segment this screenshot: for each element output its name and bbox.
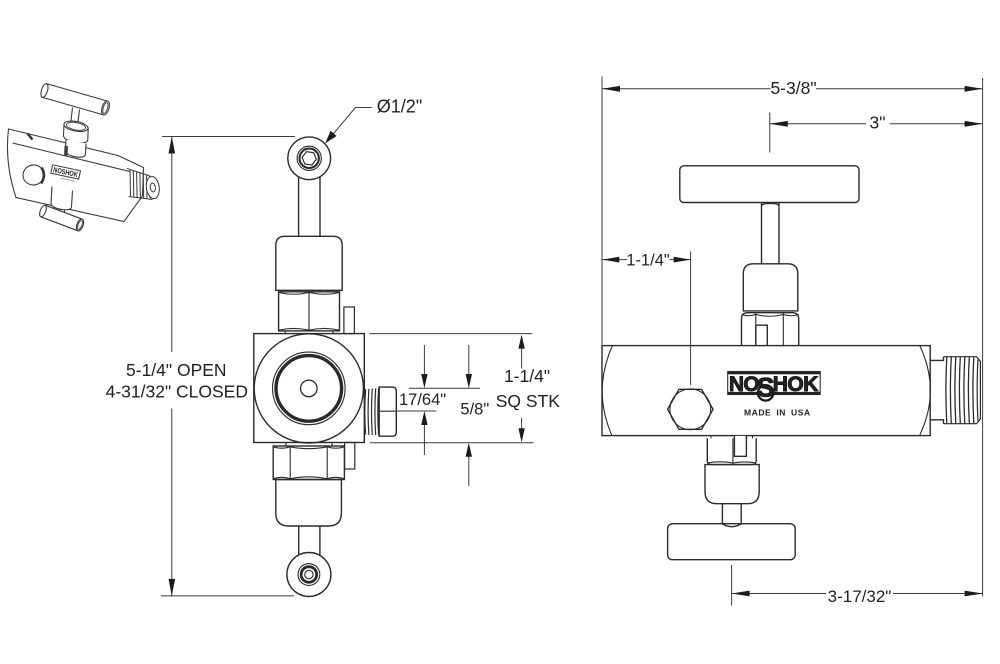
svg-text:1-1/4": 1-1/4" — [504, 366, 550, 386]
dim line 3-17/32 left part — [732, 593, 826, 595]
arrowhead up 5/8 — [466, 443, 472, 457]
lower stem side — [722, 504, 741, 527]
arrowhead down 5/8 — [466, 374, 472, 388]
lower T handle — [668, 524, 796, 560]
body left end chamfer arc — [602, 346, 612, 435]
iso body front ridge — [13, 143, 131, 172]
dim line 3-17/32 right part — [893, 593, 983, 595]
iso top face mark — [28, 134, 33, 140]
body front thin ring — [273, 352, 346, 425]
dim line 3 right part — [890, 123, 983, 125]
iso packing nut — [63, 119, 89, 143]
bottom eye thick ring — [301, 567, 317, 583]
dim line 5-3/8 left part — [602, 88, 771, 90]
svg-text:17/64": 17/64" — [399, 391, 446, 409]
svg-text:5-1/4" OPEN: 5-1/4" OPEN — [126, 360, 227, 380]
lower nut neck tick right — [752, 436, 754, 439]
lower nut neck tick left — [710, 436, 712, 439]
male NPT thread block — [944, 357, 981, 424]
upper neck tick left — [284, 331, 286, 334]
vertical dimension line lower segment — [171, 409, 173, 596]
lower neck tick left — [285, 443, 287, 447]
leader line dia 1/2 — [327, 108, 372, 143]
arrowhead 1-1/4 right — [674, 257, 691, 263]
DIMENSIONS front view — [161, 108, 534, 596]
svg-text:SQ STK: SQ STK — [496, 391, 561, 411]
iso small marking — [61, 178, 75, 181]
iso top handle — [40, 83, 111, 116]
arrowhead 3-17/32 right — [965, 591, 983, 597]
lower stem wire right — [319, 526, 321, 556]
right extension line — [982, 78, 984, 596]
upper hex nut side — [742, 313, 799, 346]
upper packing hex nut — [279, 292, 340, 331]
extension line top left — [162, 136, 295, 138]
side port cap facet line — [379, 410, 396, 412]
iso bottom handle — [38, 204, 85, 232]
sq stk bottom ext line — [370, 442, 534, 444]
upper T handle — [680, 166, 859, 203]
side port threads — [365, 388, 379, 435]
arrowhead up (5-1/4 top) — [169, 137, 176, 154]
arrowhead 1-1/4 left — [602, 257, 619, 263]
hex plug — [668, 389, 713, 430]
lower handle centerline tick — [731, 565, 733, 606]
arrowhead up sqstk — [518, 335, 524, 349]
arrow stem up1 — [423, 423, 425, 455]
ISOMETRIC THUMBNAIL — [7, 83, 160, 232]
body front center hole — [301, 380, 318, 397]
handle centerline tick top — [769, 113, 771, 153]
svg-text:HOK: HOK — [773, 373, 818, 396]
upper bonnet — [276, 236, 342, 290]
arrowhead down 17/64 — [421, 374, 427, 388]
extension line bottom left — [161, 595, 294, 597]
lower hex nut — [273, 446, 344, 480]
svg-text:1-1/4": 1-1/4" — [626, 251, 670, 269]
bottom eye inner ring — [298, 564, 320, 586]
arrowhead down (5-1/4 bottom) — [169, 579, 176, 596]
upper stem wire left — [298, 177, 300, 237]
lower nut slot — [734, 436, 746, 456]
arrowhead leader dia 1/2 — [325, 131, 336, 144]
body right end chamfer arc — [920, 346, 931, 435]
svg-text:Ø1/2": Ø1/2" — [377, 97, 422, 117]
top eye inner ring — [297, 146, 321, 170]
upper stop tab — [344, 307, 355, 334]
dim line 1-1/4 right part — [670, 259, 691, 261]
iso lower stem — [60, 210, 65, 214]
iso lower packing — [66, 140, 87, 158]
arrowhead 5-3/8 left — [602, 86, 620, 92]
lower hex nut side — [707, 438, 756, 464]
sq stk arrow stem lower — [521, 418, 523, 429]
male NPT neck — [930, 357, 943, 424]
svg-text:5-3/8": 5-3/8" — [770, 78, 816, 98]
dim line 5-3/8 right part — [816, 88, 983, 90]
bottom eye outer circle — [287, 553, 331, 597]
lower stop tab — [345, 443, 355, 470]
vertical dimension line upper segment — [171, 137, 173, 353]
svg-text:5/8": 5/8" — [460, 400, 489, 418]
sq stk arrow stem upper — [521, 347, 523, 368]
upper stem wire right — [319, 177, 321, 237]
top eye hex socket — [301, 151, 317, 165]
side port hex cap — [379, 387, 396, 436]
upper nut slot — [756, 325, 768, 346]
DIMENSIONS right view — [602, 76, 983, 605]
svg-text:3-17/32": 3-17/32" — [828, 587, 892, 606]
arrowhead 3-17/32 left — [732, 591, 750, 597]
left extension line — [601, 76, 603, 345]
iso top stem — [71, 108, 80, 123]
svg-text:4-31/32" CLOSED: 4-31/32" CLOSED — [106, 381, 248, 401]
upper neck tick right — [332, 331, 334, 334]
arrow stem down1 — [423, 345, 425, 376]
upper stem — [762, 203, 780, 264]
iso threads — [127, 169, 161, 200]
iso packing tab — [64, 146, 68, 157]
dim line 3 left part — [770, 123, 866, 125]
svg-text:MADE IN USA: MADE IN USA — [744, 408, 811, 418]
top eye thick ring — [300, 149, 319, 168]
lower stem wire left — [298, 526, 300, 556]
arrowhead 3 right — [965, 121, 983, 127]
arrowhead up 17/64 — [421, 411, 427, 425]
lower neck tick right — [331, 443, 333, 447]
dim line 1-1/4 left part — [602, 259, 627, 261]
top eye outer circle — [288, 137, 331, 180]
arrowhead 3 left — [770, 121, 788, 127]
body square — [254, 334, 364, 443]
upper bonnet side — [743, 264, 798, 311]
arrow stem up2 — [468, 455, 470, 486]
bottom eye center hole — [305, 570, 313, 578]
NOSHOK logo — [728, 372, 821, 403]
svg-text:3": 3" — [870, 113, 886, 133]
lower bonnet side — [705, 465, 759, 504]
svg-text:NO: NO — [729, 373, 759, 396]
arrowhead down sqstk — [518, 428, 524, 442]
lower bonnet — [276, 480, 342, 527]
iso noshok marking — [51, 165, 81, 180]
dim line 17/64 lower — [396, 410, 436, 412]
iso hex plug — [21, 163, 46, 187]
body front thick ring — [276, 356, 342, 422]
sq stk top ext line — [369, 333, 532, 335]
arrowhead 5-3/8 right — [965, 86, 983, 92]
iso lower nut — [51, 187, 73, 210]
valve body side — [602, 346, 930, 436]
arrow stem down2 — [468, 345, 470, 376]
iso body outline — [7, 129, 143, 222]
body front big circle — [254, 334, 363, 443]
dim line 17/64 upper — [409, 387, 480, 389]
hex plug extension line — [690, 252, 692, 386]
